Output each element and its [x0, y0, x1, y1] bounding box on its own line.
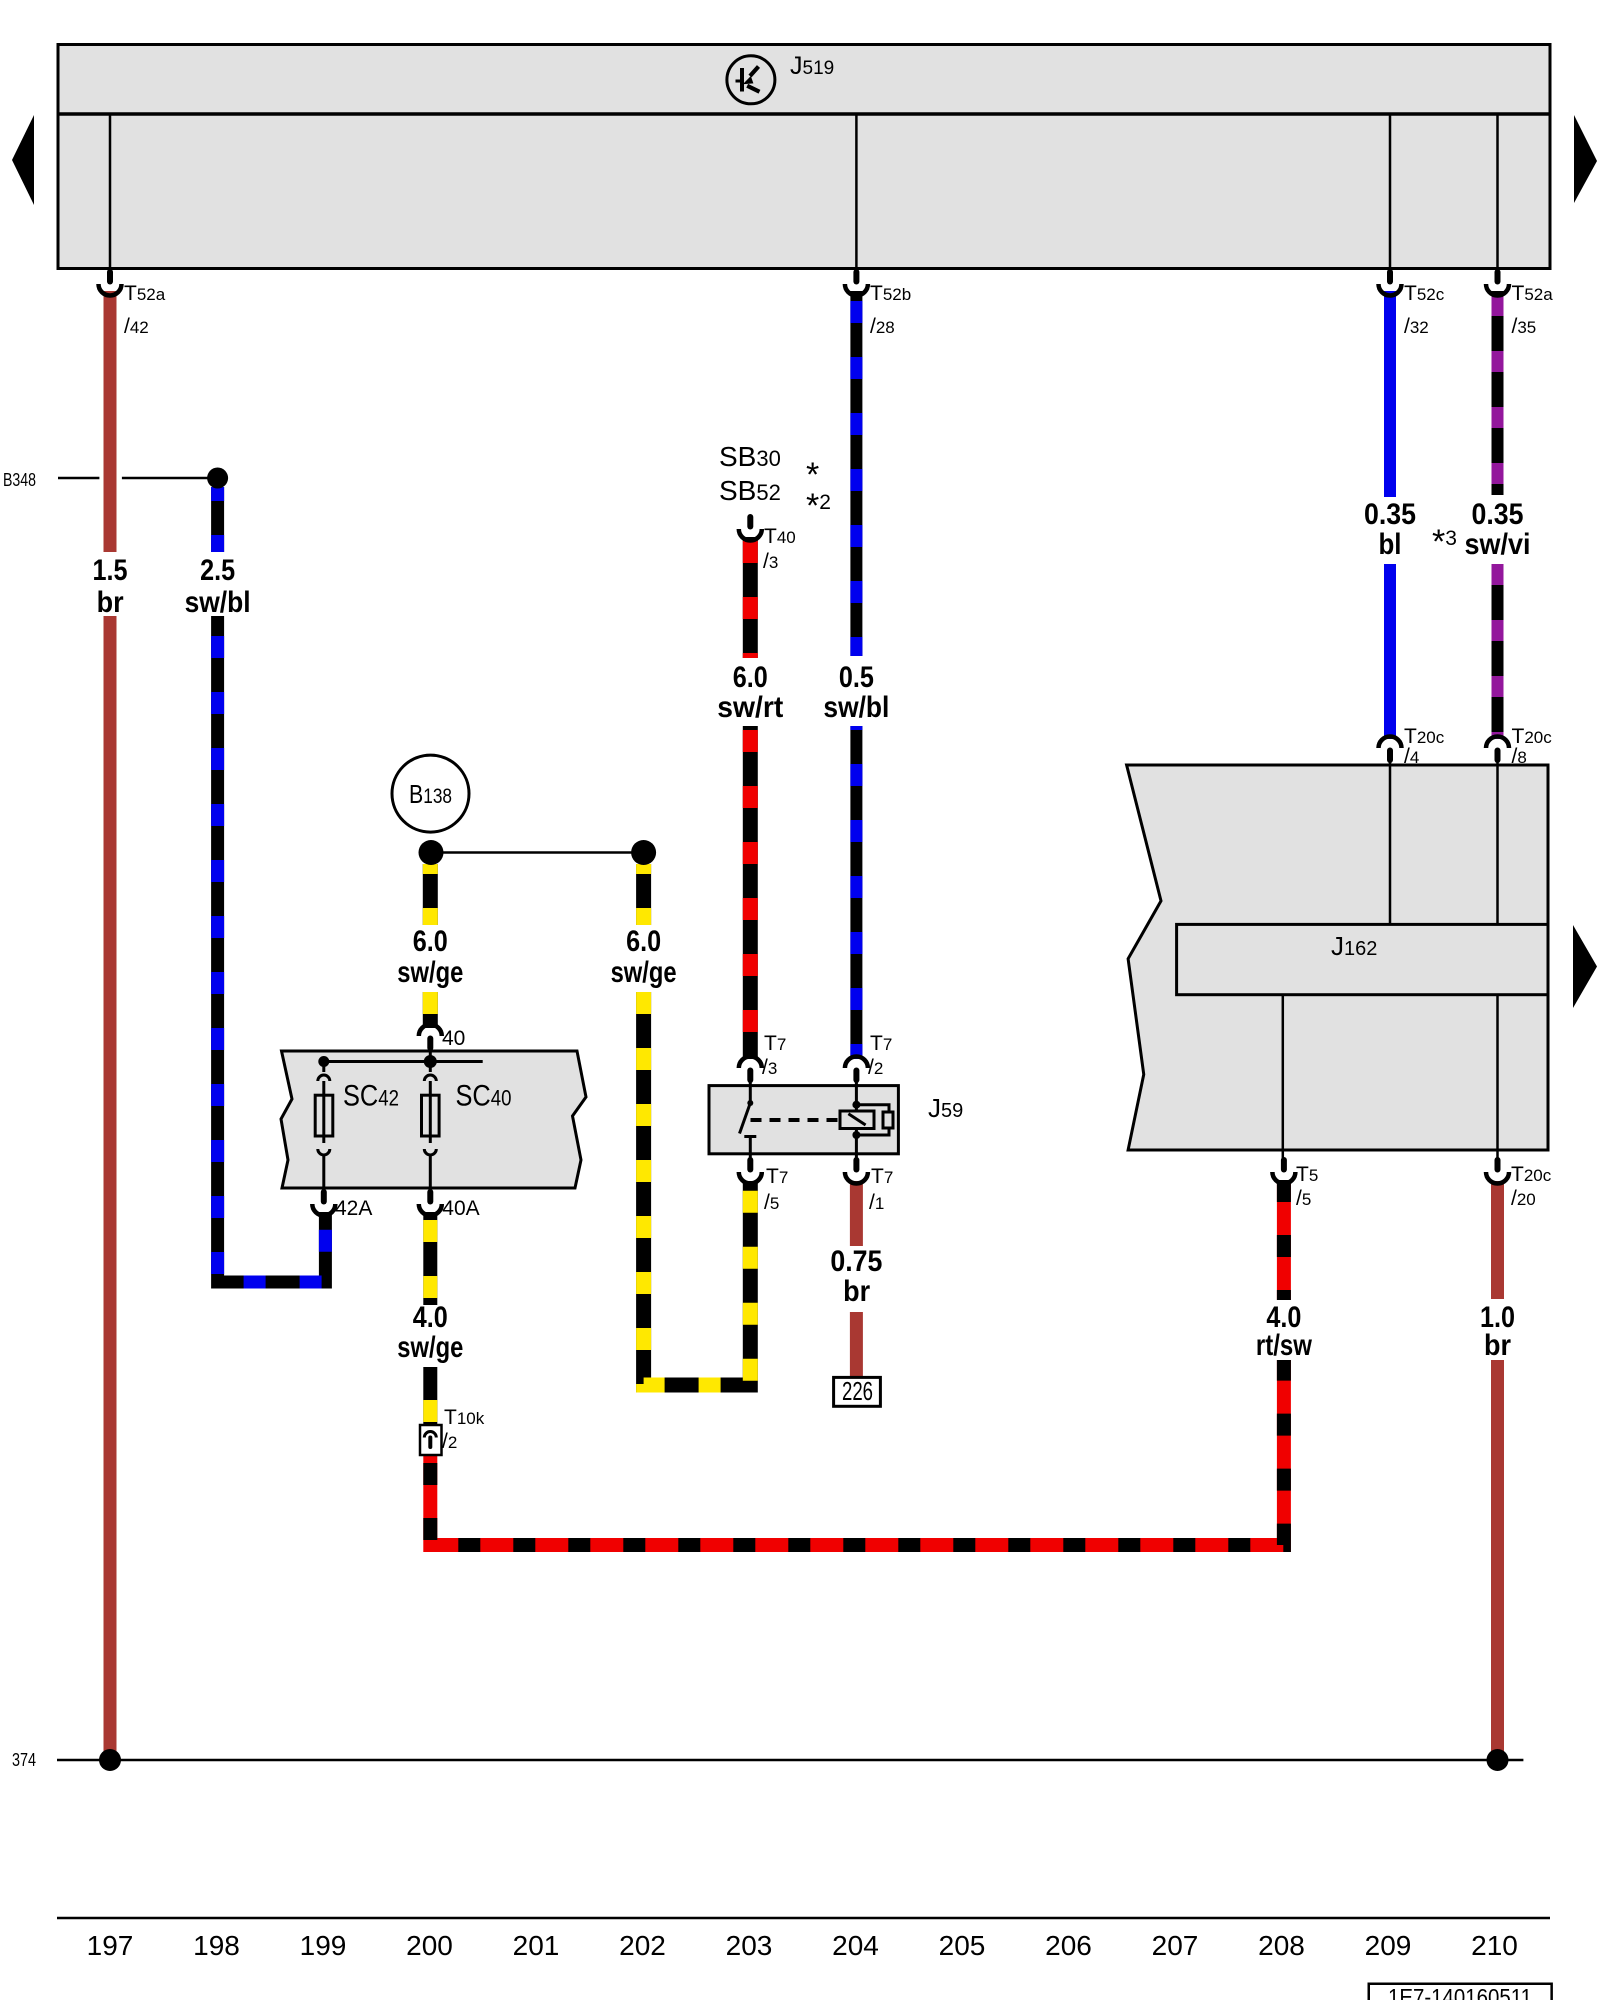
svg-text:6.0: 6.0 [733, 661, 768, 694]
svg-text:6.0: 6.0 [626, 925, 661, 958]
svg-text:sw/ge: sw/ge [611, 956, 677, 989]
svg-text:T20c: T20c [1512, 725, 1553, 748]
svg-text:T52a: T52a [1512, 282, 1554, 305]
svg-text:T7: T7 [766, 1165, 788, 1188]
svg-text:0.5: 0.5 [839, 661, 874, 694]
svg-text:T52b: T52b [870, 282, 911, 305]
svg-text:B348: B348 [3, 470, 36, 490]
svg-text:rt/sw: rt/sw [1256, 1329, 1313, 1362]
svg-text:204: 204 [832, 1930, 879, 1961]
svg-text:206: 206 [1045, 1930, 1092, 1961]
svg-text:*3: *3 [1432, 523, 1457, 561]
svg-text:/8: /8 [1512, 745, 1527, 768]
svg-text:T7: T7 [764, 1032, 786, 1055]
svg-text:40A: 40A [442, 1197, 479, 1220]
svg-text:T7: T7 [870, 1032, 892, 1055]
svg-text:/20: /20 [1511, 1187, 1536, 1210]
svg-text:207: 207 [1152, 1930, 1199, 1961]
svg-text:sw/ge: sw/ge [397, 956, 463, 989]
svg-text:203: 203 [726, 1930, 773, 1961]
svg-text:/35: /35 [1512, 315, 1537, 338]
svg-text:sw/ge: sw/ge [397, 1331, 463, 1364]
svg-text:0.35: 0.35 [1364, 498, 1416, 531]
svg-text:T10k: T10k [444, 1406, 485, 1429]
svg-text:T52c: T52c [1404, 282, 1445, 305]
svg-text:/28: /28 [870, 315, 895, 338]
svg-text:/5: /5 [1296, 1187, 1311, 1210]
svg-text:sw/bl: sw/bl [185, 586, 251, 619]
svg-text:209: 209 [1365, 1930, 1412, 1961]
svg-text:4.0: 4.0 [413, 1301, 448, 1334]
svg-text:/3: /3 [763, 550, 778, 573]
svg-text:T20c: T20c [1511, 1163, 1552, 1186]
svg-text:6.0: 6.0 [413, 925, 448, 958]
svg-text:/3: /3 [762, 1056, 777, 1079]
svg-text:40: 40 [442, 1027, 465, 1050]
svg-text:/4: /4 [1404, 745, 1419, 768]
svg-text:201: 201 [513, 1930, 560, 1961]
svg-text:SB30: SB30 [719, 441, 781, 472]
svg-text:200: 200 [406, 1930, 453, 1961]
svg-text:br: br [97, 586, 124, 619]
svg-text:SB52: SB52 [719, 475, 781, 506]
svg-text:208: 208 [1258, 1930, 1305, 1961]
svg-text:/32: /32 [1404, 315, 1429, 338]
svg-text:205: 205 [939, 1930, 986, 1961]
svg-text:/42: /42 [124, 315, 149, 338]
svg-text:197: 197 [87, 1930, 134, 1961]
svg-text:J59: J59 [928, 1093, 963, 1123]
svg-text:T5: T5 [1296, 1163, 1318, 1186]
svg-text:/2: /2 [868, 1056, 883, 1079]
svg-text:0.75: 0.75 [830, 1245, 882, 1278]
svg-text:210: 210 [1471, 1930, 1518, 1961]
svg-text:br: br [1484, 1329, 1511, 1362]
svg-text:199: 199 [300, 1930, 347, 1961]
svg-text:1E7-140160511: 1E7-140160511 [1388, 1984, 1532, 2000]
svg-text:sw/bl: sw/bl [823, 691, 889, 724]
svg-text:0.35: 0.35 [1472, 498, 1524, 531]
svg-text:226: 226 [842, 1376, 873, 1406]
svg-text:sw/vi: sw/vi [1465, 528, 1531, 561]
svg-text:/2: /2 [442, 1430, 457, 1453]
svg-text:sw/rt: sw/rt [717, 691, 783, 724]
svg-text:br: br [843, 1275, 870, 1308]
svg-text:/1: /1 [869, 1191, 884, 1214]
svg-text:/5: /5 [764, 1191, 779, 1214]
svg-text:198: 198 [193, 1930, 240, 1961]
svg-text:1.5: 1.5 [93, 554, 128, 587]
svg-text:42A: 42A [335, 1197, 372, 1220]
svg-text:374: 374 [12, 1750, 36, 1770]
svg-text:T7: T7 [871, 1165, 893, 1188]
svg-text:bl: bl [1379, 528, 1402, 561]
svg-text:T40: T40 [764, 525, 796, 548]
svg-text:2.5: 2.5 [200, 554, 235, 587]
svg-text:T52a: T52a [124, 282, 166, 305]
svg-text:*2: *2 [806, 487, 831, 525]
svg-text:T20c: T20c [1404, 725, 1445, 748]
svg-text:202: 202 [619, 1930, 666, 1961]
